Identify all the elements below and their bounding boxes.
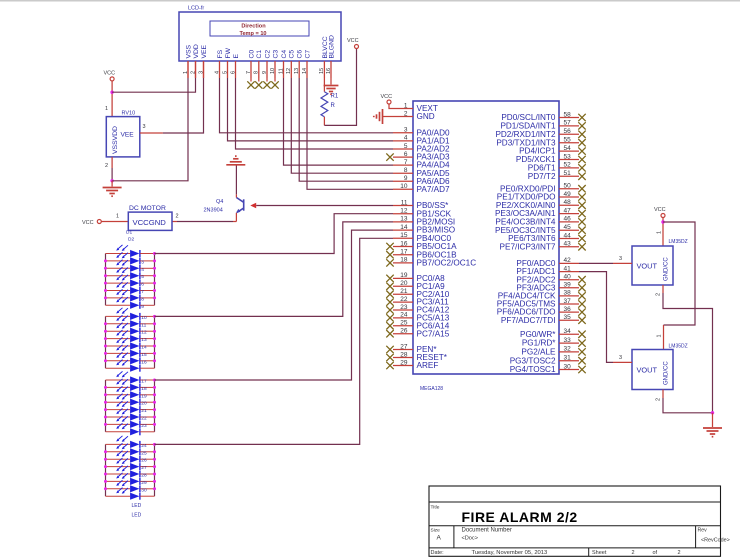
DC MOTOR component <box>128 212 172 230</box>
svg-text:Title: Title <box>431 505 440 511</box>
svg-text:GND/CC: GND/CC <box>664 257 670 281</box>
junction right bus <box>153 450 156 453</box>
no-connect X pin 21 <box>386 291 393 298</box>
LCD pin 12 stub <box>290 61 292 78</box>
MCU pin 13 PB2/MOSI <box>393 221 413 223</box>
svg-text:VOUT: VOUT <box>637 262 658 271</box>
svg-text:3: 3 <box>143 124 146 130</box>
svg-text:1: 1 <box>116 214 119 220</box>
LCD pin 5 stub <box>227 61 229 78</box>
svg-text:15: 15 <box>400 232 408 239</box>
title block outer frame <box>429 486 721 556</box>
svg-text:1: 1 <box>105 106 108 112</box>
svg-text:10: 10 <box>141 315 147 321</box>
svg-text:4: 4 <box>404 135 408 142</box>
junction right bus <box>153 465 156 468</box>
svg-text:Document Number: Document Number <box>462 527 512 533</box>
wire PA6 to LCD C6 <box>299 78 393 181</box>
no-connect X pin 24 <box>386 314 393 321</box>
ground above Q4 collector <box>226 156 245 165</box>
junction right bus <box>153 352 156 355</box>
junction right bus <box>153 345 156 348</box>
no-connect X pin 20 <box>386 283 393 290</box>
MCU pin 53 PD5/XCK1 <box>559 159 579 161</box>
svg-text:PF7/ADC7/TDI: PF7/ADC7/TDI <box>501 316 556 325</box>
MCU pin 31 PG3/TOSC2 <box>559 360 579 362</box>
svg-text:E: E <box>233 54 240 59</box>
svg-text:10: 10 <box>270 68 276 74</box>
wire RV10 pin2 to ground junction <box>111 157 113 168</box>
MCU pin 42 PF0/ADC0 <box>559 262 579 264</box>
junction left bus <box>104 322 107 325</box>
svg-text:FS: FS <box>217 49 224 58</box>
page top border <box>0 0 740 2</box>
no-connect X pin 18 <box>386 259 393 266</box>
wire R1 bottom to VCC riser <box>323 117 325 126</box>
svg-text:PG3/TOSC2: PG3/TOSC2 <box>510 356 556 365</box>
no-connect X pin 23 <box>386 306 393 313</box>
LCD pin 4 stub <box>219 61 221 78</box>
svg-text:15: 15 <box>141 352 147 358</box>
junction right bus <box>153 386 156 389</box>
VCC symbol near R1 <box>355 45 359 49</box>
svg-text:26: 26 <box>141 458 147 464</box>
svg-text:5: 5 <box>141 274 144 280</box>
svg-text:Direction: Direction <box>241 24 266 30</box>
no-connect X pin 6 <box>386 153 393 160</box>
junction left bus <box>104 345 107 348</box>
title block sheet divider <box>588 548 590 556</box>
no-connect X pin 45 <box>578 227 585 234</box>
svg-text:17: 17 <box>400 249 408 256</box>
MCU pin 6 PA3/AD3 <box>393 156 413 158</box>
svg-text:16: 16 <box>400 240 408 247</box>
svg-text:3: 3 <box>619 355 622 361</box>
wire PA1 to LCD FW <box>228 78 394 141</box>
svg-text:5: 5 <box>404 143 408 150</box>
MCU pin 41 PF1/ADC1 <box>559 271 579 273</box>
svg-text:VDD: VDD <box>193 44 200 58</box>
no-connect X on LCD pin 10 C3 <box>274 78 276 82</box>
junction left bus <box>104 296 107 299</box>
svg-text:25: 25 <box>141 450 147 456</box>
svg-text:10: 10 <box>400 183 408 190</box>
LCD pin 3 stub <box>203 61 205 78</box>
no-connect X pin 50 <box>578 185 585 192</box>
no-connect X pin 27 <box>386 346 393 353</box>
LED D2 <box>106 245 155 257</box>
LCD pin 9 stub <box>266 61 268 78</box>
LED D30 <box>106 465 155 478</box>
svg-text:43: 43 <box>564 241 572 248</box>
svg-text:PA7/AD7: PA7/AD7 <box>417 185 451 194</box>
no-connect X pin 29 <box>386 362 393 369</box>
title block rev divider <box>695 526 697 548</box>
no-connect X pin 17 <box>386 251 393 258</box>
svg-text:GND/CC: GND/CC <box>664 361 670 385</box>
LED D31 <box>106 473 155 486</box>
svg-text:FIRE ALARM 2/2: FIRE ALARM 2/2 <box>462 509 578 525</box>
svg-text:22: 22 <box>141 416 147 422</box>
no-connect X pin 37 <box>578 300 585 307</box>
junction left bus <box>104 473 107 476</box>
svg-text:47: 47 <box>564 207 572 214</box>
svg-text:C6: C6 <box>297 50 304 59</box>
MCU pin 16 PB5/OC1A <box>393 246 413 248</box>
svg-text:C0: C0 <box>248 50 255 59</box>
svg-text:C5: C5 <box>289 50 296 59</box>
svg-text:6: 6 <box>230 71 236 74</box>
wire LED bank 4 to MCU pin 15 <box>155 238 394 444</box>
no-connect X pin 34 <box>578 331 585 338</box>
LED bank 3 left bus wire <box>105 380 107 432</box>
wire VCC branch to LM35 U2 pin1 <box>663 222 695 325</box>
no-connect X pin 49 <box>578 193 585 200</box>
MCU pin 28 RESET* <box>393 357 413 359</box>
no-connect X pin 39 <box>578 284 585 291</box>
svg-text:C7: C7 <box>304 50 311 59</box>
wire PA7 to LCD C7 <box>307 78 393 189</box>
LED bank 4 right bus wire <box>154 444 156 496</box>
MCU pin 23 PC4/A12 <box>393 309 413 311</box>
svg-text:2: 2 <box>656 293 662 296</box>
svg-text:3: 3 <box>404 127 408 134</box>
LED D18 <box>106 371 155 384</box>
junction right bus <box>153 423 156 426</box>
svg-text:8: 8 <box>254 71 260 74</box>
svg-text:30: 30 <box>564 363 572 370</box>
no-connect X pin 57 <box>578 122 585 129</box>
svg-text:18: 18 <box>141 386 147 392</box>
LED bank 2 left bus wire <box>105 316 107 368</box>
MCU pin 32 PG2/ALE <box>559 351 579 353</box>
LED D22 <box>106 401 155 414</box>
LED D28 <box>106 451 155 464</box>
svg-text:D2: D2 <box>128 237 134 243</box>
VCC symbol at DC motor <box>97 220 101 224</box>
svg-text:56: 56 <box>564 128 572 135</box>
MCU pin 33 PG1/RD* <box>559 342 579 344</box>
wire VCC to junction to RV10 pin1 <box>111 81 113 117</box>
svg-text:A: A <box>437 535 442 542</box>
MCU pin 20 PC1/A9 <box>393 285 413 287</box>
MCU pin 14 PB3/MISO <box>393 229 413 231</box>
LED D32 <box>106 480 155 493</box>
svg-text:VSSVDD: VSSVDD <box>112 126 119 154</box>
no-connect X pin 53 <box>578 156 585 163</box>
svg-text:D1: D1 <box>126 230 132 236</box>
LCD pin 10 stub <box>274 61 276 78</box>
temperature sensor U2 LM35DZ body <box>632 350 673 390</box>
junction left bus <box>104 416 107 419</box>
svg-text:2: 2 <box>176 214 179 220</box>
LED D25 <box>106 423 155 435</box>
MCU pin 44 PE6/T3/INT6 <box>559 238 579 240</box>
svg-text:<Doc>: <Doc> <box>462 536 478 542</box>
svg-text:4: 4 <box>141 267 144 273</box>
svg-text:44: 44 <box>564 232 572 239</box>
svg-text:DC MOTOR: DC MOTOR <box>129 205 166 212</box>
no-connect X pin 25 <box>386 322 393 329</box>
wire LCD pin16 to ground <box>330 78 332 85</box>
no-connect X pin 55 <box>578 139 585 146</box>
LCD pin 14 stub <box>306 61 308 78</box>
svg-text:24: 24 <box>400 312 408 319</box>
svg-text:C3: C3 <box>272 50 279 59</box>
no-connect X pin 43 <box>578 243 585 250</box>
junction right bus <box>153 458 156 461</box>
junction left bus <box>104 337 107 340</box>
svg-text:33: 33 <box>564 337 572 344</box>
MCU pin 30 PG4/TOSC1 <box>559 369 579 371</box>
wire U1 pin2 GND to ground net <box>662 285 664 293</box>
junction right bus <box>153 252 156 255</box>
VCC symbol at MCU pin1 VEXT <box>387 100 391 104</box>
svg-text:C2: C2 <box>264 50 271 59</box>
junction left bus <box>104 480 107 483</box>
wire PB0 to Q4 base <box>256 205 393 207</box>
wire PA0 to LCD FS <box>220 78 394 133</box>
LCD pin 16 stub <box>330 61 332 78</box>
LED D13 <box>106 330 155 343</box>
VCC symbol above LM35 U1 <box>661 214 665 218</box>
svg-text:BLGND: BLGND <box>328 35 335 59</box>
title block row line 3 <box>429 547 721 549</box>
LCD pin 13 stub <box>298 61 300 78</box>
svg-text:8: 8 <box>404 167 408 174</box>
no-connect X on LCD pin 9 C2 <box>266 78 268 82</box>
junction left bus <box>104 282 107 285</box>
title block row line 1 <box>429 501 721 503</box>
svg-text:55: 55 <box>564 137 572 144</box>
svg-text:13: 13 <box>294 68 300 74</box>
junction right bus <box>153 315 156 318</box>
svg-text:7: 7 <box>246 71 252 74</box>
potentiometer RV10 <box>106 117 140 157</box>
svg-text:32: 32 <box>564 346 572 353</box>
MCU pin 27 PEN* <box>393 349 413 351</box>
LED D10 <box>106 308 155 321</box>
svg-text:8: 8 <box>141 296 144 302</box>
svg-text:20: 20 <box>400 280 408 287</box>
svg-text:25: 25 <box>400 320 408 327</box>
svg-text:VCCGND: VCCGND <box>133 218 167 227</box>
MCU pin 22 PC3/A11 <box>393 301 413 303</box>
svg-text:16: 16 <box>141 359 147 365</box>
junction left bus <box>104 289 107 292</box>
MCU pin 24 PC5/A13 <box>393 317 413 319</box>
MCU pin 12 PB1/SCK <box>393 213 413 215</box>
MCU pin 39 PF3/ADC3 <box>559 287 579 289</box>
wire Q4 emitter to motor <box>235 213 237 222</box>
svg-text:LED: LED <box>132 513 142 519</box>
LED D15 <box>106 345 155 358</box>
wire U2 pin2 GND to ground junction <box>662 390 664 399</box>
svg-text:29: 29 <box>141 480 147 486</box>
no-connect X pin 54 <box>578 147 585 154</box>
svg-text:VCC: VCC <box>347 38 359 44</box>
wire RV10 pin3 to LCD pin3 VEE <box>140 132 163 134</box>
wire PA4 to LCD C4 <box>284 78 394 165</box>
junction left bus <box>104 450 107 453</box>
junction left bus <box>104 393 107 396</box>
junction right bus <box>153 393 156 396</box>
MCU pin 47 PE3/OC3A/AIN1 <box>559 213 579 215</box>
MCU pin 40 PF2/ADC2 <box>559 279 579 281</box>
junction left bus <box>104 259 107 262</box>
svg-text:of: of <box>653 550 658 556</box>
MCU pin 4 PA1/AD1 <box>393 140 413 142</box>
svg-text:C1: C1 <box>256 50 263 59</box>
svg-text:LCD-fr: LCD-fr <box>188 6 204 12</box>
junction right bus <box>153 359 156 362</box>
LED bank 2 right bus wire <box>154 316 156 368</box>
wire LED bank 1 to MCU pin 12 <box>155 214 394 254</box>
junction left bus <box>104 423 107 426</box>
node junction VCC branch <box>661 220 664 223</box>
MCU pin 55 PD3/TXD1/INT3 <box>559 142 579 144</box>
microcontroller U MEGA128 body <box>413 101 559 374</box>
LCD pin 7 stub <box>250 61 252 78</box>
svg-text:VCC: VCC <box>82 220 94 226</box>
junction left bus <box>104 359 107 362</box>
Q4 base arrow <box>250 203 256 209</box>
wire VCC to LM35 pin1 <box>662 218 664 247</box>
MCU pin 52 PD6/T1 <box>559 167 579 169</box>
no-connect X pin 26 <box>386 330 393 337</box>
title block row line 2 <box>429 525 721 527</box>
LED D19 <box>106 379 155 392</box>
MCU pin 26 PC7/A15 <box>393 333 413 335</box>
MCU pin 37 PF5/ADC5/TMS <box>559 303 579 305</box>
svg-text:LM35DZ: LM35DZ <box>669 344 688 350</box>
svg-text:23: 23 <box>141 423 147 429</box>
VCC symbol above RV10 <box>110 77 114 81</box>
svg-text:35: 35 <box>564 314 572 321</box>
svg-text:PB7/OC2/OC1C: PB7/OC2/OC1C <box>417 259 477 268</box>
no-connect X pin 48 <box>578 202 585 209</box>
svg-text:R: R <box>331 103 336 109</box>
svg-text:<RevCode>: <RevCode> <box>701 538 730 544</box>
svg-text:PG0/WR*: PG0/WR* <box>520 330 556 339</box>
svg-text:38: 38 <box>564 290 572 297</box>
MCU pin 19 PC0/A8 <box>393 277 413 279</box>
MCU pin 46 PE4/OC3B/INT4 <box>559 221 579 223</box>
MCU pin 35 PF7/ADC7/TDI <box>559 319 579 321</box>
svg-text:19: 19 <box>141 393 147 399</box>
svg-text:LM35DZ: LM35DZ <box>669 239 688 245</box>
node junction RV10 ground <box>110 179 113 182</box>
svg-text:20: 20 <box>141 401 147 407</box>
svg-text:7: 7 <box>141 289 144 295</box>
ground symbol at MCU pin2 GND <box>374 109 383 124</box>
LED bank 1 right bus wire <box>154 254 156 306</box>
node junction ground net <box>711 411 714 414</box>
junction right bus <box>153 267 156 270</box>
svg-text:VEE: VEE <box>121 132 135 139</box>
svg-text:26: 26 <box>400 328 408 335</box>
MCU pin 11 PB0/SS* <box>393 205 413 207</box>
MCU pin 1 VEXT <box>393 108 413 110</box>
svg-text:9: 9 <box>262 71 268 74</box>
LCD pin 2 stub <box>195 61 197 78</box>
no-connect X pin 30 <box>578 366 585 373</box>
MCU pin 34 PG0/WR* <box>559 333 579 335</box>
no-connect X pin 56 <box>578 131 585 138</box>
junction right bus <box>153 480 156 483</box>
svg-text:29: 29 <box>400 359 408 366</box>
MCU pin 15 PB4/OC0 <box>393 237 413 239</box>
no-connect X on LCD pin 8 C1 <box>258 78 260 82</box>
svg-text:18: 18 <box>400 257 408 264</box>
no-connect X pin 32 <box>578 348 585 355</box>
svg-text:50: 50 <box>564 183 572 190</box>
MCU pin 10 PA7/AD7 <box>393 188 413 190</box>
svg-text:VEE: VEE <box>201 44 208 58</box>
no-connect X pin 47 <box>578 210 585 217</box>
LED D27 <box>106 443 155 456</box>
MCU pin 2 GND <box>393 116 413 118</box>
svg-text:1: 1 <box>657 334 663 337</box>
junction right bus <box>153 322 156 325</box>
svg-text:PE7/ICP3/INT7: PE7/ICP3/INT7 <box>500 242 556 251</box>
LED D24 <box>106 416 155 429</box>
svg-text:11: 11 <box>141 322 146 328</box>
LED D17 <box>106 360 155 372</box>
LCD pin 1 stub <box>187 61 189 78</box>
LCD display window <box>210 21 309 36</box>
no-connect X pin 28 <box>386 354 393 361</box>
junction right bus <box>153 259 156 262</box>
no-connect X pin 31 <box>578 357 585 364</box>
svg-text:PD7/T2: PD7/T2 <box>528 172 556 181</box>
MCU pin 29 AREF <box>393 365 413 367</box>
no-connect X pin 46 <box>578 218 585 225</box>
MCU pin 43 PE7/ICP3/INT7 <box>559 246 579 248</box>
junction right bus <box>153 274 156 277</box>
LED D26 <box>106 436 155 449</box>
svg-text:12: 12 <box>286 68 292 74</box>
wire LED bank 3 to MCU pin 14 <box>155 230 394 380</box>
wire VCC to pin1 <box>389 104 393 109</box>
LED D9 <box>106 297 155 310</box>
junction left bus <box>104 274 107 277</box>
svg-text:41: 41 <box>564 265 572 272</box>
MCU pin 54 PD4/ICP1 <box>559 150 579 152</box>
wire VCC to motor pin1 <box>101 221 128 223</box>
svg-text:42: 42 <box>564 257 572 264</box>
svg-text:13: 13 <box>141 337 147 343</box>
LED D29 <box>106 458 155 471</box>
svg-text:RV10: RV10 <box>122 111 136 117</box>
svg-text:52: 52 <box>564 162 572 169</box>
wire MCU PF0 to U1 VOUT <box>579 262 613 264</box>
junction left bus <box>104 408 107 411</box>
svg-text:1: 1 <box>657 231 663 234</box>
no-connect X pin 51 <box>578 173 585 180</box>
svg-text:45: 45 <box>564 224 572 231</box>
svg-text:14: 14 <box>302 68 308 74</box>
svg-text:14: 14 <box>400 224 408 231</box>
svg-text:9: 9 <box>404 175 408 182</box>
svg-text:21: 21 <box>141 408 147 414</box>
wire LCD pin15 to R1 <box>323 78 325 92</box>
junction left bus <box>104 267 107 270</box>
svg-text:Rev: Rev <box>698 527 708 533</box>
svg-text:Q4: Q4 <box>216 199 223 205</box>
MCU pin 9 PA6/AD6 <box>393 180 413 182</box>
LCD pin 6 stub <box>235 61 237 78</box>
